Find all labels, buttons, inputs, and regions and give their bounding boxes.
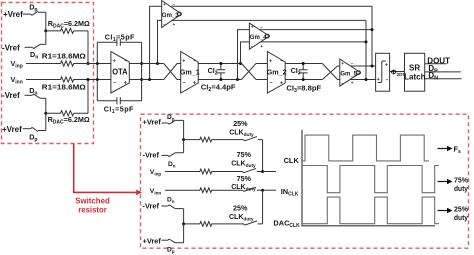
switch 25% CLKduty row 1 — [244, 137, 263, 141]
svg-text:–: – — [124, 58, 127, 64]
red arrowhead into box2 — [136, 190, 142, 196]
wire Gm4 input tap B (top line to bottom input) — [241, 42, 250, 64]
switch Dp (box2 bottom) — [168, 239, 184, 243]
Gm_5 polarity marks — [341, 61, 354, 85]
wire Vinn output stub — [263, 189, 276, 191]
transconductor Gm_1 — [181, 52, 199, 94]
node Gm4 tap on top line — [239, 62, 242, 65]
comparator latch glyph — [378, 61, 386, 83]
wire CI1 left vertical — [96, 42, 98, 101]
svg-text:CLKduty: CLKduty — [229, 130, 254, 138]
svg-text:-Vref: -Vref — [2, 43, 20, 52]
transconductor Gm_5 (summing amp) — [340, 59, 361, 86]
svg-text:–: – — [341, 80, 344, 85]
svg-text:+: + — [173, 22, 176, 27]
capacitor CI3 — [299, 64, 308, 80]
svg-text:Gm_3: Gm_3 — [162, 12, 179, 19]
node RDAC-Vinn junction — [87, 78, 90, 81]
svg-text:CLKduty: CLKduty — [231, 160, 256, 168]
node Vinn merge (box2) — [261, 189, 264, 192]
svg-text:+: + — [182, 59, 185, 65]
wire CI1 bottom loop with capacitor CI1 — [97, 97, 141, 104]
node Gm3 tap on bottom line — [148, 78, 151, 81]
svg-text:25%: 25% — [233, 204, 248, 213]
wire row4 up to Vinn node — [262, 190, 264, 224]
wire rail from Dn up to DAC node — [45, 31, 47, 45]
svg-text:CI3: CI3 — [291, 66, 301, 77]
switch 75% CLKduty row 2 — [243, 169, 263, 173]
svg-text:-Vref: -Vref — [143, 202, 160, 211]
transconductor Gm_3 (feedforward) — [162, 1, 182, 28]
dashed box: switched resistor detail — [141, 114, 469, 248]
wire RDAC top down to Vinp line — [87, 31, 89, 64]
node RDAC-Vinp junction — [87, 62, 90, 65]
wire rail Dn up to DAC node (box2 top) — [183, 140, 185, 153]
svg-text:+Vref: +Vref — [3, 10, 23, 19]
svg-text:+: + — [280, 81, 283, 87]
svg-text:+: + — [124, 81, 127, 87]
wire Vinn row with resistor (box2) — [165, 188, 243, 193]
SR latch block — [405, 53, 425, 91]
svg-text:CI2=4.4pF: CI2=4.4pF — [201, 82, 236, 93]
svg-text:+: + — [163, 2, 166, 7]
wire Gm_2 output top — [285, 63, 322, 65]
svg-text:+Vref: +Vref — [143, 236, 162, 245]
svg-text:75%: 75% — [237, 150, 252, 159]
waveform IN_CLK (75% duty) — [302, 166, 439, 193]
svg-text:CI2: CI2 — [208, 66, 218, 77]
wire rail from Dp bottom up to DAC node 2 — [45, 113, 47, 130]
OTA polarity marks — [113, 58, 128, 86]
wire Vinp output stub — [263, 171, 276, 173]
wire RDAC bottom up to Vinn line — [87, 80, 89, 114]
switch Dn (box2 lower) — [168, 205, 184, 209]
switch Dn (box2 upper) — [168, 153, 184, 157]
wire DOUT stub — [425, 63, 447, 65]
wire rail from Dn lower down to DAC node 2 — [45, 98, 47, 113]
wire OTA output top — [129, 63, 164, 65]
svg-text:-Vref: -Vref — [143, 150, 160, 159]
wire rail Dn down to DAC node (box2 bottom) — [183, 209, 185, 224]
wire comparator output — [390, 71, 405, 73]
svg-text:-Vref: -Vref — [2, 91, 20, 100]
wire +Vref bottom to switch Dp (box2) — [162, 239, 168, 241]
svg-text:CI1=5pF: CI1=5pF — [104, 104, 134, 115]
wire output Dp — [425, 71, 461, 73]
svg-text:DACCLK: DACCLK — [273, 218, 300, 229]
svg-text:duty: duty — [454, 184, 469, 193]
wire Vinn with resistor R1 — [26, 77, 111, 82]
svg-text:resistor: resistor — [78, 205, 107, 214]
wire -Vref lower to switch Dn (box2) — [162, 205, 168, 207]
svg-text:Dn: Dn — [168, 161, 176, 168]
wire Gm3 input tap A (bottom line to top input) — [150, 6, 162, 79]
switch Dn (upper) — [32, 44, 46, 48]
svg-text:RDAC=6.2MΩ: RDAC=6.2MΩ — [48, 115, 90, 126]
Gm_4 polarity marks — [251, 25, 264, 49]
wire crossing 1 — [164, 64, 181, 80]
arrow 25% duty — [438, 210, 448, 212]
svg-text:Vinn: Vinn — [11, 75, 23, 86]
node Gm4 tap on bottom line — [236, 78, 239, 81]
node Vinp merge (box2) — [261, 170, 264, 173]
svg-text:–: – — [260, 25, 263, 30]
Gm_1 polarity marks — [182, 58, 196, 86]
wire row1 down to Vinp node — [262, 140, 264, 172]
node rail B to comparator bottom line — [365, 78, 368, 81]
waveform axis — [302, 130, 435, 226]
node rail B / Gm_4 bottom — [365, 40, 368, 43]
svg-text:Latch: Latch — [404, 72, 425, 81]
svg-text:Vinp: Vinp — [11, 59, 23, 70]
svg-text:Gm_1: Gm_1 — [180, 68, 201, 77]
resistor RDAC (top) — [46, 28, 88, 33]
svg-text:+Vref: +Vref — [143, 117, 162, 126]
svg-text:–: – — [193, 58, 196, 64]
Gm_4 output bubble — [266, 34, 270, 38]
node rail A to comparator top line — [371, 65, 374, 68]
resistor RDAC (bottom) — [46, 111, 88, 116]
svg-text:–: – — [385, 77, 388, 83]
svg-text:25%: 25% — [233, 119, 248, 128]
svg-text:+: + — [193, 81, 196, 87]
wire +Vref to switch Dp — [23, 13, 31, 15]
svg-text:Gm_5: Gm_5 — [340, 71, 357, 78]
wire Gm_5 output bottom — [350, 79, 375, 81]
svg-text:75%: 75% — [237, 174, 252, 183]
node DAC-p junction — [44, 29, 47, 32]
Gm_3 polarity marks — [163, 2, 176, 27]
svg-text:–: – — [280, 58, 283, 64]
svg-text:Dp: Dp — [29, 2, 37, 13]
svg-text:+: + — [351, 80, 354, 85]
wire -Vref lower to switch Dn — [25, 94, 33, 96]
svg-text:OTA: OTA — [112, 67, 128, 76]
switch 75% CLKduty row 3 — [243, 187, 263, 191]
transconductor Gm_4 (feedforward) — [249, 23, 269, 49]
switch Dn (lower) — [32, 94, 46, 98]
wire Vinp row with resistor (box2) — [165, 169, 243, 174]
wire -Vref to switch Dn — [25, 46, 33, 48]
svg-text:Dp: Dp — [167, 114, 175, 121]
wire Gm3 input tap B (top line to bottom input) — [158, 20, 162, 63]
node CI1 loop tap top-left — [96, 62, 99, 65]
wire Gm_4 output bottom to rail B — [260, 41, 366, 43]
svg-text:R1=18.6MΩ: R1=18.6MΩ — [42, 51, 86, 60]
wire rail Dp up to DAC node (box2 bottom) — [183, 224, 185, 243]
capacitor CI2 — [217, 64, 226, 80]
svg-text:CI1=5pF: CI1=5pF — [105, 32, 135, 43]
svg-text:–: – — [163, 22, 166, 27]
svg-text:CLKduty: CLKduty — [229, 214, 254, 222]
node DAC-n junction — [44, 112, 47, 115]
svg-text:+: + — [269, 59, 272, 65]
svg-text:Switched: Switched — [75, 196, 110, 205]
svg-text:+: + — [113, 59, 116, 65]
switch Dp (top) — [31, 11, 46, 15]
svg-text:Dn: Dn — [30, 50, 38, 61]
svg-text:+: + — [377, 77, 380, 83]
wire summing rail B — [365, 20, 367, 79]
node DAC junction (box2 top) — [182, 138, 185, 141]
svg-text:duty: duty — [454, 213, 469, 222]
node CI1 loop tap bottom-left — [96, 78, 99, 81]
waveform DAC_CLK (25% duty) — [302, 197, 439, 224]
node CI3 top — [302, 62, 305, 65]
wire crossing 2 — [242, 64, 268, 80]
switch 25% CLKduty row 4 — [244, 221, 263, 225]
svg-text:SR: SR — [409, 63, 420, 72]
svg-text:Dp: Dp — [29, 133, 37, 144]
svg-text:–: – — [183, 80, 186, 86]
comparator polarity marks — [377, 63, 389, 84]
wire -Vref to switch Dn (box2) — [162, 154, 168, 156]
op-amp OTA (first integrator) — [111, 52, 129, 94]
node Gm3 tap on top line — [156, 62, 159, 65]
transconductor Gm_2 — [267, 52, 285, 94]
svg-text:+Vref: +Vref — [2, 125, 22, 134]
resistor DAC row 1 (box2) — [184, 137, 244, 142]
svg-text:+: + — [385, 63, 388, 69]
Gm_3 output bubble — [178, 12, 182, 16]
waveform CLK — [302, 135, 429, 161]
node CI2 bottom — [219, 78, 222, 81]
svg-text:–: – — [270, 80, 273, 86]
svg-text:R1=18.6MΩ: R1=18.6MΩ — [42, 83, 86, 92]
svg-text:Gm_4: Gm_4 — [250, 34, 267, 41]
wire Gm_2 output bottom — [285, 79, 322, 81]
node DAC junction (box2 bottom) — [182, 222, 185, 225]
svg-text:Vinp: Vinp — [150, 169, 162, 176]
wire Gm_5 output top — [351, 65, 376, 67]
svg-text:+: + — [260, 44, 263, 49]
wire +Vref to switch Dp (box2) — [162, 122, 168, 124]
arrow 75% duty — [438, 181, 448, 183]
wire rail Dp to DAC node (box2 top) — [183, 120, 185, 139]
svg-text:Vinn: Vinn — [150, 188, 162, 195]
wire Gm_1 output bottom — [198, 79, 241, 81]
wire Gm_3 output top to rail A — [171, 5, 372, 7]
wire Gm_3 output bottom to rail B — [171, 19, 366, 21]
dashed box: switched-resistor input DAC network — [2, 3, 94, 144]
svg-text:Gm_2: Gm_2 — [267, 68, 287, 77]
wire +Vref bottom to switch Dp — [23, 128, 31, 130]
red callout line from box1 to box2 — [74, 144, 137, 193]
Gm_5 output bubble — [357, 71, 361, 75]
svg-text:–: – — [113, 80, 116, 86]
wire rail from Dp down to DAC node — [45, 12, 47, 31]
wire crossing 3 — [322, 64, 339, 80]
wire Vinp with resistor R1 — [26, 61, 111, 66]
wire Gm_4 output top to rail A — [259, 29, 372, 31]
wire CI1 right vertical — [141, 42, 143, 101]
wire output Dn — [425, 78, 462, 80]
node CI3 bottom — [302, 78, 305, 81]
wire summing rail A — [371, 6, 373, 66]
svg-text:+: + — [341, 61, 344, 66]
svg-text:–: – — [251, 44, 254, 49]
svg-text:+: + — [251, 25, 254, 30]
svg-text:Fs: Fs — [454, 145, 462, 156]
svg-text:Dn: Dn — [167, 197, 175, 204]
comparator U1 (latched) — [376, 53, 390, 91]
svg-text:INCLK: INCLK — [281, 187, 299, 198]
svg-text:CLK: CLK — [284, 156, 300, 165]
resistor DAC row 4 (box2) — [184, 222, 244, 227]
svg-text:–: – — [351, 61, 354, 66]
wire OTA output bottom — [129, 79, 164, 81]
arrow Fs — [438, 148, 448, 150]
svg-text:CI3=8.8pF: CI3=8.8pF — [286, 84, 321, 95]
node CI2 top — [219, 62, 222, 65]
switch Dp (box2 top) — [168, 120, 184, 124]
node rail A / Gm_4 top — [371, 28, 374, 31]
node CI1 right bottom — [140, 78, 143, 81]
wire Gm_1 output top — [198, 63, 241, 65]
node CI1 right top — [140, 62, 143, 65]
wire Gm4 input tap A (bottom line to top input) — [238, 30, 250, 80]
switch Dp (bottom) — [31, 127, 46, 131]
wire CI1 top loop with capacitor CI1 — [97, 39, 141, 46]
Gm_2 polarity marks — [269, 58, 283, 86]
svg-text:RDAC=6.2MΩ: RDAC=6.2MΩ — [48, 19, 90, 30]
